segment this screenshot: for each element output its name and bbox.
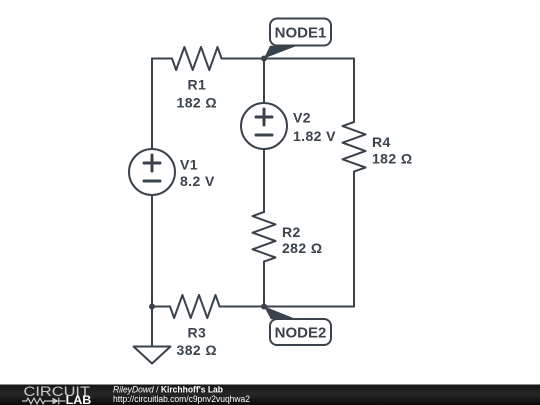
node flag box NODE1 bbox=[270, 19, 331, 46]
voltage source V2 circle bbox=[241, 103, 287, 149]
wire top-left to R1 bbox=[152, 58, 172, 60]
wire R3 to node NODE2 bbox=[220, 306, 264, 308]
resistor R1 bbox=[172, 47, 222, 70]
resistor R3 bbox=[170, 295, 220, 318]
voltage source V1 circle bbox=[129, 149, 175, 195]
wire V1 to bottom-left node bbox=[151, 195, 153, 307]
wire ground stub bbox=[151, 307, 153, 347]
wire left vertical top (corner to V1) bbox=[151, 59, 153, 150]
svg-text:R4: R4 bbox=[372, 134, 391, 150]
wire R4 to bottom-right corner bbox=[353, 172, 355, 307]
svg-text:RileyDowd / Kirchhoff's Lab: RileyDowd / Kirchhoff's Lab bbox=[113, 384, 223, 394]
CircuitLab logo diode bbox=[58, 398, 60, 405]
node flag pointer NODE2 bbox=[264, 306, 296, 319]
svg-text:1.82 V: 1.82 V bbox=[293, 128, 336, 144]
wire node NODE1 to V2 bbox=[263, 59, 265, 104]
wire R2 to node NODE2 bbox=[263, 262, 265, 307]
wire right vertical top (corner to R4) bbox=[353, 59, 355, 123]
ground bbox=[134, 347, 171, 364]
V1 plus symbol bbox=[144, 109, 272, 181]
resistor R4 bbox=[343, 122, 366, 172]
svg-text:V1: V1 bbox=[180, 157, 198, 173]
resistor R2 bbox=[253, 212, 276, 262]
V2 plus symbol bbox=[256, 116, 272, 119]
junction node at NODE1 bbox=[261, 56, 267, 62]
wire node NODE1 to top-right corner bbox=[264, 58, 354, 60]
wire V2 to R2 bbox=[263, 149, 265, 212]
svg-text:R2: R2 bbox=[282, 224, 301, 240]
node flag box NODE2 bbox=[270, 319, 331, 345]
junction node bottom-left bbox=[149, 304, 155, 310]
svg-text:182 Ω: 182 Ω bbox=[372, 151, 412, 167]
wire bottom-left node to R3 bbox=[152, 306, 170, 308]
V1 minus symbol bbox=[144, 180, 160, 183]
V2 minus symbol bbox=[256, 134, 272, 137]
wire R1 to node NODE1 bbox=[222, 58, 264, 60]
CircuitLab logo resistor zigzag bbox=[22, 398, 66, 405]
node flag pointer NODE1 bbox=[264, 46, 297, 59]
svg-text:282 Ω: 282 Ω bbox=[282, 240, 322, 256]
svg-text:8.2 V: 8.2 V bbox=[180, 173, 215, 189]
svg-text:V2: V2 bbox=[293, 110, 311, 126]
svg-text:NODE1: NODE1 bbox=[275, 25, 327, 42]
svg-text:182 Ω: 182 Ω bbox=[177, 95, 217, 111]
svg-text:R3: R3 bbox=[187, 325, 206, 341]
svg-text:382 Ω: 382 Ω bbox=[177, 342, 217, 358]
svg-text:NODE2: NODE2 bbox=[275, 325, 327, 342]
svg-text:http://circuitlab.com/c9pnv2vu: http://circuitlab.com/c9pnv2vuqhwa2 bbox=[113, 394, 250, 404]
svg-text:LAB: LAB bbox=[66, 395, 92, 405]
wire node NODE2 to bottom-right corner bbox=[264, 306, 354, 308]
svg-text:R1: R1 bbox=[187, 77, 206, 93]
junction node at NODE2 bbox=[261, 304, 267, 310]
